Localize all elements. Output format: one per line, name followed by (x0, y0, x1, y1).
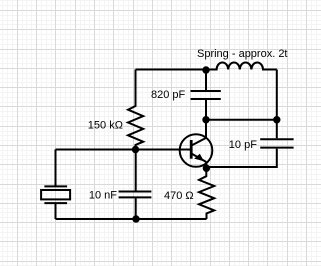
junction node E (emitter, R2 top) (203, 165, 210, 172)
wire: right rail from L1 down to C2 (276, 70, 278, 139)
svg-text:820 pF: 820 pF (151, 89, 186, 101)
wire: from C3 bottom to bottom rail (135, 198, 137, 219)
wire: base wire from crystal loop to Q1 base (56, 149, 191, 151)
resistor R2 (470 Ω) (199, 167, 214, 219)
svg-text:470 Ω: 470 Ω (164, 190, 194, 202)
wire: top horizontal from R1 corner to node A (136, 69, 207, 71)
svg-text:10 pF: 10 pF (229, 139, 257, 151)
junction node on bottom rail at C3 (132, 215, 139, 222)
label: Spring - approx. 2t (197, 48, 288, 60)
wire: Q1 emitter stub down to node E (205, 162, 207, 167)
wire: middle horizontal between collector rail and right rail (206, 119, 277, 121)
junction node on collector rail at middle wire (202, 116, 209, 123)
capacitor C1 (820 pF) (191, 91, 221, 99)
svg-text:150 kΩ: 150 kΩ (88, 120, 123, 132)
capacitor C3 (10 nF) (119, 192, 152, 198)
wire: from C2 bottom down and left to emitter node E (206, 149, 276, 167)
capacitor C2 (10 pF) (260, 139, 293, 147)
transistor Q1 (NPN) (180, 134, 213, 167)
svg-text:10 nF: 10 nF (89, 190, 117, 202)
crystal X1 (41, 186, 70, 203)
junction node B (base wire, R1 bottom, C3 top) (132, 146, 139, 153)
label: 10 nF (89, 190, 117, 202)
label: 150 kΩ (88, 120, 123, 132)
junction node A (top, collector rail meets L1) (202, 66, 209, 73)
wire: crystal X1 bottom to bottom rail (55, 204, 57, 219)
wire: bottom horizontal rail (56, 218, 207, 220)
wire: from node A down to C1 (205, 70, 207, 91)
resistor R1 (150 kΩ) (128, 70, 143, 150)
label: 10 pF (229, 139, 257, 151)
wire: left rail down to crystal X1 (55, 150, 57, 186)
junction node on right rail at middle wire (273, 116, 280, 123)
wire: from C1 bottom down to Q1 collector (205, 100, 207, 139)
label: 470 Ω (164, 190, 194, 202)
label: 820 pF (151, 89, 186, 101)
inductor L1 (Spring - approx. 2t) (206, 63, 277, 70)
svg-text:Spring - approx. 2t: Spring - approx. 2t (197, 48, 288, 60)
wire: from node B down to C3 (135, 150, 137, 191)
